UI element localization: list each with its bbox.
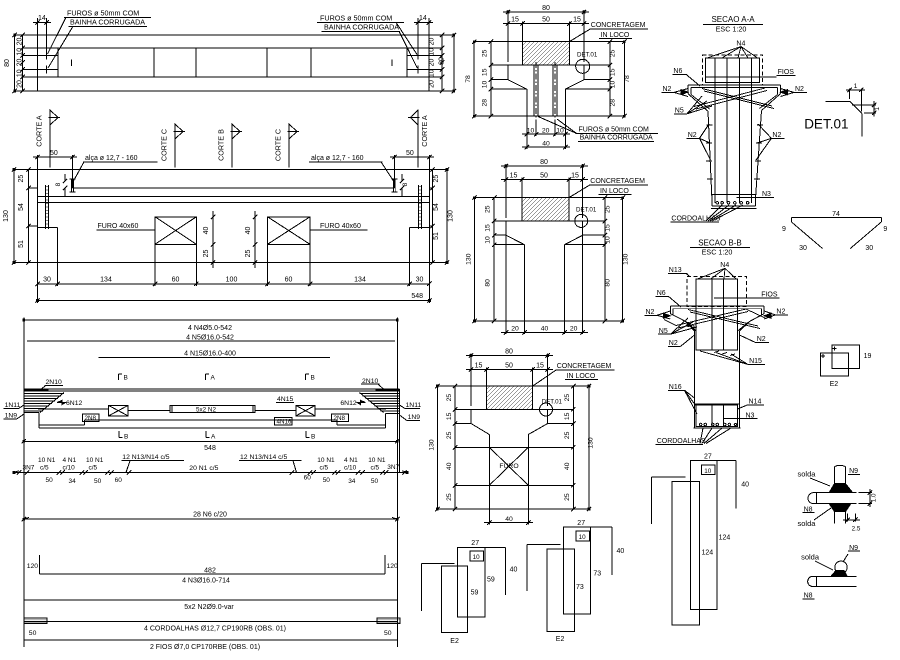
section1 dim 40 [522, 136, 570, 149]
svg-text:BAINHA CORRUGADA: BAINHA CORRUGADA [324, 23, 399, 32]
svg-text:4 CORDOALHAS Ø12,7 CP190RB (OB: 4 CORDOALHAS Ø12,7 CP190RB (OBS. 01) [144, 626, 286, 633]
svg-text:FURO 40x60: FURO 40x60 [320, 223, 361, 230]
solda detail1 dim 1.0 [858, 489, 872, 507]
svg-text:28: 28 [610, 99, 617, 107]
secaoAA vertical bars [715, 58, 752, 203]
svg-text:25: 25 [485, 205, 492, 213]
det01 corner lines [825, 101, 862, 136]
plan left dim 80 [14, 35, 16, 91]
svg-text:3N7: 3N7 [23, 465, 35, 472]
svg-text:130: 130 [588, 437, 595, 449]
hole cross marks left [23, 52, 58, 74]
svg-text:60: 60 [304, 475, 312, 482]
svg-text:134: 134 [354, 277, 366, 284]
alca loop symbol right [392, 179, 398, 192]
section3 furo box [489, 447, 528, 485]
svg-text:1.0: 1.0 [871, 493, 878, 502]
svg-text:80: 80 [505, 349, 513, 356]
svg-text:80: 80 [604, 279, 611, 287]
svg-text:124: 124 [702, 550, 714, 557]
estribo group1 rectB [458, 548, 485, 617]
furo 40x60 box right [268, 217, 311, 245]
elevation dapped end bottoms [38, 227, 430, 229]
dim 40 right furo [254, 217, 256, 245]
section1 hole centerlines [535, 62, 537, 120]
svg-text:10: 10 [579, 534, 587, 541]
svg-text:27: 27 [471, 540, 479, 547]
svg-text:20: 20 [542, 128, 550, 135]
svg-text:c/5: c/5 [371, 464, 380, 471]
reinf bottom edge [39, 427, 386, 429]
svg-text:20 N1 c/5: 20 N1 c/5 [189, 465, 218, 472]
section3 left dim chain [454, 386, 456, 509]
svg-text:10: 10 [485, 236, 492, 244]
svg-text:SECAO A-A: SECAO A-A [711, 15, 755, 24]
section2 right dim chain [604, 198, 606, 321]
svg-text:40: 40 [505, 516, 513, 523]
svg-text:25: 25 [203, 250, 210, 258]
reinf 5x2 N2 box [170, 406, 255, 413]
svg-text:548: 548 [204, 445, 216, 452]
svg-text:ESC 1:20: ESC 1:20 [716, 25, 747, 34]
svg-text:50: 50 [50, 150, 58, 157]
svg-text:10: 10 [482, 81, 489, 89]
svg-text:30: 30 [865, 245, 873, 252]
det01 dim 1 right [852, 101, 876, 117]
corte C mark 1 [174, 124, 176, 168]
svg-text:DET.01: DET.01 [577, 52, 598, 59]
estribo group1 59 open hook [421, 563, 454, 611]
section2 dim 20 40 20 bottom [501, 235, 588, 334]
svg-text:25: 25 [564, 394, 571, 402]
svg-text:B: B [311, 375, 315, 382]
secaoAA dashed cast block [702, 55, 762, 85]
section2 cast in place hatched block [522, 198, 569, 221]
section3 left dim 130 [436, 386, 438, 509]
svg-text:4 N1: 4 N1 [63, 457, 77, 464]
plan right dim 80 [453, 35, 455, 91]
svg-text:20: 20 [17, 59, 24, 67]
svg-text:9: 9 [883, 226, 887, 233]
svg-text:8: 8 [55, 182, 62, 186]
elevation beam right end edge [428, 170, 430, 228]
svg-text:15: 15 [610, 68, 617, 76]
svg-text:40: 40 [741, 482, 749, 489]
secaoBB flange inner stirrup [673, 309, 762, 332]
dim 25 right furo [254, 244, 256, 268]
section1 left dim chain [490, 42, 492, 117]
furo 40x60 box left [155, 217, 196, 245]
svg-text:10: 10 [429, 69, 436, 77]
estribo group3 rectA [672, 482, 699, 625]
svg-text:78: 78 [624, 75, 631, 83]
beam plan vertical dividers [58, 48, 407, 77]
svg-text:E2: E2 [556, 636, 565, 643]
svg-text:DET.01: DET.01 [576, 207, 597, 214]
svg-text:15: 15 [446, 412, 453, 420]
reinf X box right [296, 406, 315, 416]
svg-text:25: 25 [446, 493, 453, 501]
elevation left dim chain 25-54-51 [28, 170, 30, 263]
svg-text:15: 15 [510, 173, 518, 180]
section1 dim 10 20 10 [522, 116, 570, 136]
section3 dim 80 top [466, 354, 553, 407]
svg-text:50: 50 [540, 173, 548, 180]
estribo group2 rectB [564, 527, 591, 614]
dim 25 left furo [212, 244, 214, 268]
dim line 28 N6 c20 [24, 518, 398, 520]
svg-text:50: 50 [371, 478, 379, 485]
svg-text:IN LOCO: IN LOCO [600, 188, 629, 195]
plan right dim chain [441, 35, 443, 91]
elevation strand lines [38, 196, 430, 202]
svg-text:73: 73 [576, 584, 584, 591]
bottom bracket marks L B L A L B [119, 431, 123, 438]
svg-text:10 N1: 10 N1 [86, 457, 104, 464]
section3 right dim 130 [588, 386, 590, 509]
section1 beam outline [508, 65, 584, 116]
section1 det01 circle [576, 59, 590, 73]
dim 50 right top [390, 155, 434, 188]
svg-text:CORTE B: CORTE B [217, 129, 226, 161]
bar line 4 N4 [24, 319, 398, 321]
solda detail1 weld blob top [829, 484, 853, 493]
secaoBB strand dots [699, 423, 737, 426]
svg-text:solda: solda [798, 470, 817, 479]
plan left dim chain 20-10-20-10-20 [22, 35, 24, 91]
svg-text:50: 50 [406, 150, 414, 157]
secaoBB vertical bars top [712, 279, 724, 350]
svg-text:51: 51 [18, 240, 25, 248]
bent bar 4 N3 shape [40, 555, 386, 574]
svg-text:25: 25 [433, 175, 440, 183]
svg-text:20: 20 [570, 326, 578, 333]
svg-text:28: 28 [482, 99, 489, 107]
secaoBB flange outline [670, 306, 764, 331]
solda detail1 lower bar stub [835, 512, 846, 524]
svg-text:FUROS ø 50mm COM: FUROS ø 50mm COM [320, 14, 392, 23]
secaoBB bottom face [694, 427, 741, 429]
section2 beam outline [506, 221, 583, 321]
svg-text:14: 14 [419, 15, 427, 22]
svg-text:CONCRETAGEM: CONCRETAGEM [590, 178, 645, 185]
section1 hole walls [534, 65, 557, 116]
svg-text:20: 20 [429, 38, 436, 46]
fan bars 6N12 left [24, 394, 64, 412]
svg-text:c/10: c/10 [344, 464, 357, 471]
svg-text:25: 25 [446, 394, 453, 402]
svg-text:15: 15 [564, 412, 571, 420]
det01 dim 1 top [846, 88, 865, 111]
section2 dims 15 50 15 [501, 178, 588, 198]
estribo group1 hook 10 box [470, 551, 484, 561]
bar line 4 N5 [27, 340, 395, 342]
elevation end block inner verticals [73, 170, 395, 188]
section2 left dim 130 [474, 198, 476, 321]
fan bars 6N12 right [360, 394, 400, 412]
svg-text:N15: N15 [749, 358, 762, 365]
svg-text:CONCRETAGEM: CONCRETAGEM [557, 363, 612, 370]
svg-text:60: 60 [285, 277, 293, 284]
svg-text:40: 40 [245, 227, 252, 235]
section3 right dim chain [572, 386, 574, 509]
reinf long extension lines [24, 320, 400, 647]
svg-text:FUROS ø 50mm COM: FUROS ø 50mm COM [67, 9, 139, 18]
bar line 4 N15 [99, 357, 331, 359]
svg-text:N14: N14 [749, 398, 762, 405]
section3 dims 15 50 15 [466, 368, 553, 387]
svg-text:15: 15 [536, 363, 544, 370]
secaoAA web outline [708, 111, 762, 199]
svg-text:40: 40 [542, 140, 550, 147]
svg-text:124: 124 [719, 535, 731, 542]
svg-text:80: 80 [540, 159, 548, 166]
svg-text:120: 120 [387, 563, 399, 570]
svg-text:15: 15 [604, 224, 611, 232]
svg-text:50: 50 [323, 477, 331, 484]
svg-text:30: 30 [43, 277, 51, 284]
svg-text:5x2 N2Ø9.0-var: 5x2 N2Ø9.0-var [184, 604, 234, 611]
leader lines to holes left [48, 17, 74, 68]
end vertical bars left [46, 185, 49, 229]
estribo group1 rectA [442, 566, 468, 633]
plan lifting mark I left [71, 60, 73, 67]
svg-text:CORTE A: CORTE A [35, 115, 44, 147]
svg-text:8: 8 [402, 182, 409, 186]
svg-text:25: 25 [482, 49, 489, 57]
alca loop symbol left [70, 179, 76, 192]
svg-text:A: A [211, 375, 216, 382]
svg-text:4N16: 4N16 [277, 419, 293, 426]
svg-text:15: 15 [475, 363, 483, 370]
svg-text:B: B [124, 375, 128, 382]
secaoBB flange tip arrows [663, 313, 670, 318]
label 2N8 boxed right [332, 414, 349, 422]
svg-text:100: 100 [226, 277, 238, 284]
svg-text:130: 130 [448, 210, 455, 222]
secaoAA flange inner stirrup [691, 87, 778, 109]
elevation dim 548 [38, 300, 430, 302]
svg-text:SECAO B-B: SECAO B-B [698, 238, 742, 247]
section3 dim 40 bottom [484, 509, 533, 525]
svg-text:BAINHA CORRUGADA: BAINHA CORRUGADA [580, 135, 653, 142]
svg-text:25: 25 [604, 205, 611, 213]
svg-text:28 N6 c/20: 28 N6 c/20 [193, 512, 227, 519]
svg-text:5x2 N2: 5x2 N2 [196, 407, 216, 414]
svg-text:DET.01: DET.01 [804, 116, 848, 131]
svg-text:solda: solda [801, 553, 820, 562]
svg-text:27: 27 [577, 520, 585, 527]
corte A mark left [49, 110, 51, 168]
section1 dim 80 top [503, 10, 589, 62]
svg-text:50: 50 [94, 478, 102, 485]
section2 right dim 130 [622, 198, 624, 321]
plan dim 14 left [33, 18, 51, 52]
secaoBB lower block [695, 403, 740, 405]
svg-text:3N7: 3N7 [387, 464, 399, 471]
secaoBB bottom stirrup rect [696, 405, 738, 426]
svg-text:20: 20 [511, 326, 519, 333]
svg-text:DET.01: DET.01 [542, 398, 563, 405]
estribo group2 rectA [547, 549, 574, 631]
reinf N16 line with steps [39, 420, 386, 425]
svg-text:alça ø 12,7 - 160: alça ø 12,7 - 160 [311, 155, 364, 162]
svg-text:130: 130 [622, 253, 629, 265]
svg-text:40: 40 [617, 548, 625, 555]
secaoAA strand dots [716, 202, 749, 205]
svg-text:c/5: c/5 [320, 464, 329, 471]
svg-text:15: 15 [485, 224, 492, 232]
svg-text:4 N15Ø16.0-400: 4 N15Ø16.0-400 [184, 351, 236, 358]
svg-text:59: 59 [487, 577, 495, 584]
svg-text:25: 25 [564, 493, 571, 501]
dim 40 left furo [212, 217, 214, 245]
solda detail1 horizontal bar N8 [808, 493, 856, 504]
svg-text:CORTE A: CORTE A [420, 115, 429, 147]
dim 8 alca right [401, 174, 403, 196]
svg-text:548: 548 [411, 293, 423, 300]
estribo group2 hook 10 box [576, 531, 590, 541]
reinf beam left end [23, 389, 25, 412]
svg-text:FURO 40x60: FURO 40x60 [98, 223, 139, 230]
svg-text:c/5: c/5 [40, 464, 49, 471]
svg-text:B: B [311, 434, 315, 441]
svg-text:FIOS: FIOS [761, 291, 778, 298]
elevation left dim 130 [13, 170, 15, 263]
solda detail1 vertical bar N9 [835, 465, 846, 484]
hole cross marks right [407, 52, 442, 74]
solda detail2 horizontal bar N8 [808, 576, 857, 586]
svg-text:2 FIOS Ø7,0 CP170RBE (OBS. 01): 2 FIOS Ø7,0 CP170RBE (OBS. 01) [150, 644, 260, 651]
corte A mark right [417, 110, 419, 168]
svg-text:60: 60 [172, 277, 180, 284]
svg-text:20: 20 [17, 80, 24, 88]
svg-text:E2: E2 [830, 381, 839, 388]
svg-text:130: 130 [3, 210, 10, 222]
secaoBB inclined bars N5 pairs [664, 309, 766, 329]
svg-text:ESC 1:20: ESC 1:20 [702, 248, 733, 257]
svg-text:80: 80 [4, 59, 11, 67]
section1 dims 15 50 15 [503, 22, 589, 42]
solda detail2 weld blob [831, 571, 847, 577]
reinf mid bar lines [38, 409, 386, 411]
svg-text:20: 20 [17, 38, 24, 46]
svg-text:10: 10 [527, 128, 535, 135]
svg-text:E2: E2 [450, 638, 459, 645]
svg-text:alça ø 12,7 - 160: alça ø 12,7 - 160 [85, 155, 138, 162]
estribo group2 73 open hook [527, 545, 561, 591]
svg-text:1: 1 [854, 83, 858, 90]
estribo group3 rectB [691, 461, 717, 610]
svg-text:10: 10 [604, 236, 611, 244]
svg-text:solda: solda [798, 519, 817, 528]
svg-text:15: 15 [573, 17, 581, 24]
svg-text:120: 120 [27, 563, 39, 570]
svg-text:N4: N4 [736, 40, 745, 47]
reinf top bar 2N10 line [24, 390, 400, 392]
svg-text:B: B [124, 434, 128, 441]
svg-text:54: 54 [433, 203, 440, 211]
solda detail1 weld blob bottom [829, 504, 851, 512]
reinf dap bottom right [386, 414, 400, 428]
svg-text:2N8: 2N8 [85, 415, 97, 422]
elevation beam bottom edge [58, 262, 410, 264]
reinf beam top edge [24, 388, 400, 390]
svg-text:54: 54 [18, 203, 25, 211]
anchor plate hatched left [24, 618, 47, 624]
svg-text:9: 9 [782, 226, 786, 233]
svg-text:80: 80 [542, 5, 550, 12]
secaoAA web tie ticks [706, 125, 763, 179]
section1 left dim 78 [473, 42, 475, 117]
svg-text:134: 134 [100, 277, 112, 284]
svg-text:10: 10 [556, 128, 564, 135]
svg-text:10: 10 [17, 48, 24, 56]
section3 cast in place hatched block [487, 386, 533, 409]
svg-text:10 N1: 10 N1 [368, 457, 386, 464]
svg-text:50: 50 [384, 630, 392, 637]
section3 beam outline [471, 409, 548, 509]
secaoAA bottom stirrup [712, 195, 756, 207]
svg-text:78: 78 [465, 75, 472, 83]
section marks gamma B gamma A gamma B [119, 374, 123, 380]
secaoBB web outline [695, 331, 740, 428]
svg-text:27: 27 [704, 454, 712, 461]
secaoAA flange outline [688, 85, 780, 111]
estribo group3 bracket 27-40 [717, 461, 736, 509]
section1 cast in place hatched block [523, 42, 570, 65]
anchor plate hatched right [377, 618, 400, 624]
estribo group1 bracket 27-40 [485, 548, 505, 596]
svg-text:51: 51 [433, 232, 440, 240]
svg-text:FIOS: FIOS [778, 69, 795, 76]
plan lifting mark I right [391, 60, 393, 67]
secaoBB stirrup bottom line [696, 349, 738, 351]
svg-text:10 N1: 10 N1 [317, 457, 335, 464]
svg-text:15: 15 [482, 68, 489, 76]
section2 det01 circle [575, 214, 588, 227]
secaoAA bottom face [711, 207, 757, 209]
svg-text:40: 40 [564, 462, 571, 470]
svg-text:34: 34 [69, 478, 77, 485]
svg-text:10: 10 [429, 48, 436, 56]
svg-text:IN LOCO: IN LOCO [567, 373, 596, 380]
svg-text:25: 25 [18, 175, 25, 183]
reinf dap bottom left [24, 412, 39, 427]
svg-text:40: 40 [203, 227, 210, 235]
svg-text:6N12: 6N12 [66, 400, 82, 407]
reinf dim 548 [24, 440, 398, 442]
label 2N8 boxed left [83, 414, 100, 422]
beam plan inner horizontal lines [38, 48, 429, 77]
svg-text:BAINHA CORRUGADA: BAINHA CORRUGADA [70, 18, 145, 27]
svg-text:c/10: c/10 [63, 464, 76, 471]
elevation right dim 130 [446, 170, 448, 263]
corte B mark [231, 124, 233, 168]
elevation beam top edge [38, 169, 430, 171]
svg-text:14: 14 [38, 15, 46, 22]
secaoAA stirrup top rect [706, 58, 760, 83]
svg-text:4 N4Ø5.0-542: 4 N4Ø5.0-542 [188, 325, 232, 332]
svg-text:19: 19 [864, 353, 872, 360]
dimension end dots [13, 11, 626, 520]
strand line cordoalhas [24, 620, 398, 622]
svg-text:10 N1: 10 N1 [38, 457, 56, 464]
elevation dap steps [58, 228, 410, 263]
estribo group3 124 open hook [652, 477, 686, 524]
svg-text:59: 59 [471, 590, 479, 597]
plan dim 14 right [414, 18, 433, 52]
